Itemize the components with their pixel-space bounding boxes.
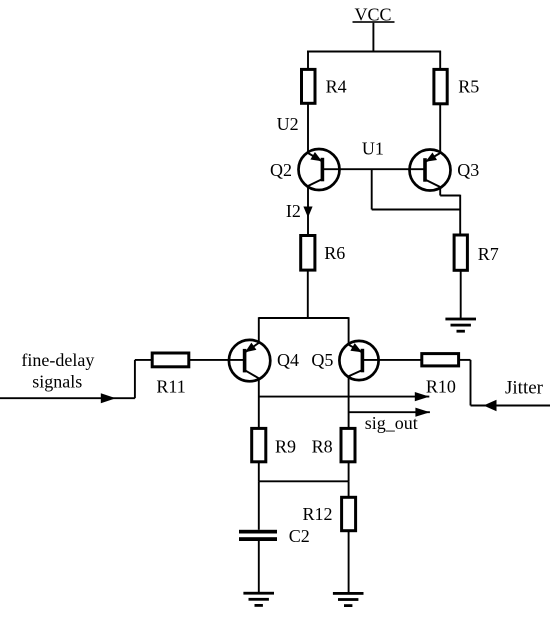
wire rail to Q5 emitter <box>348 317 350 344</box>
svg-text:R12: R12 <box>303 504 333 524</box>
resistor R10 <box>422 354 459 366</box>
resistor R8 <box>341 428 355 461</box>
wire R11 to Q4 base <box>189 359 245 361</box>
transistor Q3 <box>410 150 451 191</box>
svg-text:C2: C2 <box>289 526 310 546</box>
wire R7 to ground <box>460 270 462 318</box>
transistor Q5 <box>339 341 378 380</box>
svg-text:Q2: Q2 <box>270 160 292 180</box>
wire bottom rail <box>259 480 349 482</box>
resistor R4 <box>302 69 316 103</box>
wire Q2 collector to R6 <box>307 186 309 236</box>
wire input line <box>0 397 135 399</box>
resistor R12 <box>342 497 356 530</box>
wire R8 bottom <box>348 462 350 482</box>
wire R10 to Jitter line <box>459 359 471 361</box>
wire output line upper <box>259 396 430 398</box>
wire rail to Q4 emitter <box>258 317 260 342</box>
wire C2 to ground <box>258 541 260 592</box>
node VCC label <box>353 5 395 25</box>
svg-text:R7: R7 <box>478 244 499 264</box>
wire Jitter line <box>471 405 550 407</box>
wire rail to R12 <box>348 481 350 497</box>
svg-text:R8: R8 <box>312 437 333 457</box>
svg-text:R4: R4 <box>326 77 347 97</box>
svg-text:U1: U1 <box>362 138 384 158</box>
svg-text:Jitter: Jitter <box>505 378 544 399</box>
svg-text:Q3: Q3 <box>457 160 479 180</box>
svg-text:R6: R6 <box>324 243 345 263</box>
svg-text:R11: R11 <box>156 376 185 396</box>
wire Q3 collector to R7 <box>439 187 441 196</box>
resistor R6 <box>301 236 315 271</box>
resistor R7 <box>454 235 467 270</box>
svg-text:U2: U2 <box>277 114 299 134</box>
svg-text:signals: signals <box>32 372 82 392</box>
Jitter arrow <box>484 400 497 411</box>
svg-text:R10: R10 <box>426 377 456 397</box>
current arrow I2 <box>303 207 312 218</box>
wire R6 to tail rail <box>307 270 309 318</box>
wire rail to R5 <box>439 51 441 70</box>
output arrow upper <box>415 392 430 401</box>
ground below C2 <box>243 592 274 607</box>
output arrow sig_out <box>415 408 430 417</box>
wire Q4 collector to R9 <box>258 378 260 428</box>
wire R9 bottom <box>258 462 260 482</box>
wire sig_out line <box>349 411 430 413</box>
input arrow <box>101 393 116 403</box>
wire R12 to ground <box>348 531 350 593</box>
capacitor C2 <box>239 530 277 541</box>
wire Q2 base to Q3 base <box>322 168 425 170</box>
wire Q5 collector to R8 <box>348 376 350 428</box>
svg-text:Q4: Q4 <box>277 350 299 370</box>
wire tail rail <box>259 317 349 319</box>
wire VCC stem <box>372 23 374 52</box>
ground below R12 <box>333 592 364 607</box>
wire R4 to Q2 emitter <box>307 103 309 153</box>
wire VCC rail <box>307 51 441 53</box>
svg-text:R9: R9 <box>275 437 296 457</box>
wire rail to R4 <box>307 51 309 70</box>
resistor R11 <box>152 353 189 367</box>
wire U1 node to Q3 collector (diode connection) <box>371 169 373 209</box>
transistor Q2 <box>299 149 340 190</box>
svg-text:sig_out: sig_out <box>365 413 418 433</box>
svg-text:R5: R5 <box>458 77 479 97</box>
transistor Q4 <box>229 340 270 381</box>
svg-text:Q5: Q5 <box>311 350 333 370</box>
svg-text:I2: I2 <box>286 201 301 221</box>
resistor R5 <box>434 69 447 103</box>
wire rail to C2 <box>258 481 260 530</box>
resistor R9 <box>252 428 266 461</box>
ground below R7 <box>445 318 476 333</box>
wire R5 to Q3 emitter <box>439 104 441 153</box>
wire input riser <box>134 360 136 398</box>
svg-text:fine-delay: fine-delay <box>21 350 94 370</box>
wire Q5 base to R10 <box>364 359 422 361</box>
